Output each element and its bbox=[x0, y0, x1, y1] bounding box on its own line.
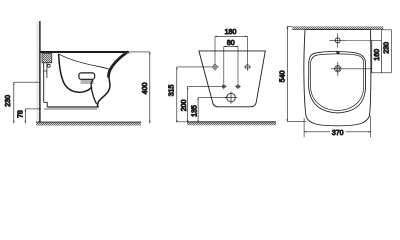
overflow notch bbox=[336, 51, 339, 54]
trap shade bbox=[81, 80, 94, 84]
back edge plan bbox=[305, 29, 371, 31]
svg-text:370: 370 bbox=[332, 130, 344, 137]
dimension 230 bbox=[13, 82, 15, 123]
ext line 230 top bbox=[14, 81, 40, 83]
dimension line 180 bbox=[215, 35, 248, 37]
arrows 78 bbox=[25, 109, 26, 123]
dimension 540 bbox=[286, 26, 288, 121]
dimension 135 bbox=[197, 98, 199, 123]
wall band plan bbox=[292, 26, 383, 29]
outer front profile bbox=[97, 53, 127, 107]
rung between back lines bbox=[44, 70, 47, 72]
ext line 78 top bbox=[25, 108, 41, 110]
bowl front inner branch bbox=[91, 80, 97, 104]
arrow 230 top bbox=[13, 82, 14, 84]
svg-text:230: 230 bbox=[5, 95, 12, 107]
fixing block (section) bbox=[42, 54, 52, 63]
svg-text:180: 180 bbox=[225, 29, 237, 36]
arrow 400 top bbox=[149, 52, 150, 54]
rim tip round bbox=[127, 51, 129, 53]
wall hatch strip bbox=[36, 22, 39, 124]
bowl inner line bbox=[311, 54, 364, 111]
back foot step bbox=[44, 102, 48, 107]
svg-text:400: 400 bbox=[142, 82, 149, 94]
drain hole bbox=[225, 91, 237, 103]
floor line left view bbox=[36, 121, 141, 123]
floor hatch band left view bbox=[36, 123, 141, 126]
ext lines 80 bbox=[223, 46, 225, 83]
svg-text:80: 80 bbox=[227, 40, 235, 47]
ext lines 180 bbox=[214, 36, 216, 63]
svg-text:160: 160 bbox=[374, 49, 381, 61]
dimension 315 bbox=[176, 67, 178, 123]
ground line middle thin part bbox=[176, 121, 187, 123]
drain spray hole bbox=[331, 62, 345, 76]
ground line middle bbox=[187, 121, 276, 123]
label box 160 bbox=[372, 41, 382, 73]
svg-text:200: 200 bbox=[181, 100, 188, 112]
arrow 400 bottom bbox=[149, 121, 150, 123]
supply hole left bbox=[221, 84, 227, 90]
svg-text:135: 135 bbox=[191, 105, 198, 117]
bowl back curve (ladle) bbox=[59, 54, 92, 93]
bidet top rim bbox=[40, 51, 128, 53]
back vertical of bidet bbox=[43, 63, 45, 103]
supply hole right bbox=[235, 84, 241, 90]
bidet bottom line bbox=[47, 106, 99, 108]
dimension line 80 bbox=[224, 45, 238, 47]
faucet hole bbox=[330, 34, 346, 48]
dimension 200 bbox=[187, 86, 189, 122]
outer outline plan bbox=[304, 30, 371, 126]
ext line 400 top bbox=[130, 51, 150, 53]
underside gray shadow bbox=[44, 108, 98, 110]
svg-text:230: 230 bbox=[384, 42, 391, 54]
wall band bottom line bbox=[292, 29, 383, 31]
bowl rim outline bbox=[309, 52, 366, 113]
arrows 80 bbox=[224, 46, 238, 47]
ext line faucet to boxes bbox=[346, 40, 372, 42]
ext line drain to boxes bbox=[345, 68, 372, 70]
dimension 78 bbox=[24, 109, 26, 123]
inner front profile bbox=[108, 53, 125, 77]
dimension 400 bbox=[149, 52, 151, 123]
fixing hole right bbox=[244, 63, 252, 71]
label box 230 bbox=[381, 30, 391, 73]
inner back line bbox=[46, 63, 48, 78]
trap piece bbox=[79, 73, 95, 80]
ground hatch band middle bbox=[187, 122, 276, 125]
arrows 180 bbox=[215, 36, 217, 37]
fixing bolt circle bbox=[47, 64, 50, 67]
fixing hole left bbox=[211, 63, 219, 71]
svg-text:315: 315 bbox=[168, 85, 175, 97]
wall line bbox=[39, 21, 41, 123]
arrow 230 bottom bbox=[13, 121, 14, 123]
bowl opening far edge bbox=[59, 54, 111, 70]
dimension 370 bbox=[303, 118, 305, 137]
svg-text:78: 78 bbox=[18, 110, 25, 118]
rear body trapezoid bbox=[199, 51, 265, 107]
svg-text:540: 540 bbox=[279, 70, 286, 82]
